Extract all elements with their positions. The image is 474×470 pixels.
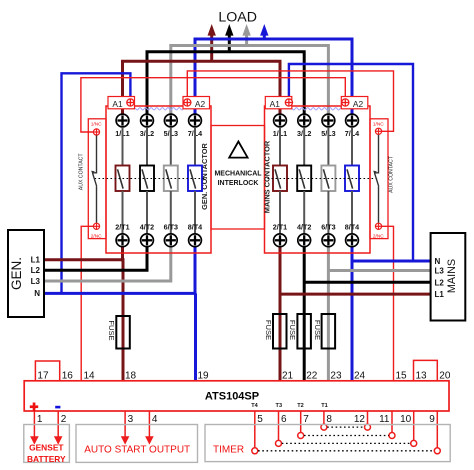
svg-text:20: 20: [439, 371, 451, 382]
MAINS contactor pole 3/L2 terminal: [298, 114, 311, 127]
svg-text:5: 5: [257, 414, 263, 425]
MAINS aux 1/NC terminal: [375, 128, 381, 134]
svg-text:A1: A1: [270, 99, 281, 109]
svg-text:22: 22: [306, 371, 318, 382]
MAINS contactor pole wire upper: [303, 127, 305, 165]
svg-text:17: 17: [37, 371, 49, 382]
wire GEN aux 2/NC to terminal 14 (red): [81, 226, 93, 380]
GEN contactor pole wire lower: [122, 191, 124, 234]
GEN contactor pole wire upper: [170, 127, 172, 165]
wire MAINS L2 riser to 4/T2 and fuse (black): [303, 247, 306, 380]
wire LOAD bus L2 (black): [147, 52, 304, 114]
GEN contactor pole 5/L3 terminal: [164, 114, 177, 127]
GEN contactor pole contact blade: [118, 169, 124, 188]
wire MAINS L2 (black): [304, 281, 430, 284]
svg-text:4: 4: [152, 414, 158, 425]
GEN contactor body: [106, 106, 211, 253]
terminal 8 stub and node: [321, 411, 327, 431]
svg-text:T2: T2: [297, 403, 304, 409]
MAINS contactor pole 8/T4 terminal: [346, 234, 359, 247]
TIMER box: [205, 425, 450, 462]
MAINS contactor pole contact box: [345, 166, 359, 192]
dotted link T2 (7-11): [304, 435, 389, 437]
MAINS contactor pole 5/L3 terminal: [322, 114, 335, 127]
svg-text:L1: L1: [31, 256, 41, 265]
MAINS contactor pole contact blade: [347, 169, 353, 188]
dotted link T4 (5-9): [258, 450, 434, 452]
MAINS contactor pole 4/T2 terminal: [298, 234, 311, 247]
GEN contactor label A2 box: [183, 97, 210, 109]
GEN contactor pole 8/T4 terminal: [189, 234, 202, 247]
LOAD arrow L2: [225, 24, 233, 52]
MAINS contactor pole wire lower: [327, 191, 329, 234]
wire GEN L1 riser to 2/T1 (dark red): [121, 247, 124, 261]
svg-text:MAINS: MAINS: [446, 259, 458, 293]
svg-text:1: 1: [37, 414, 43, 425]
MAINS contactor pole 7/L4 terminal: [346, 114, 359, 127]
GEN contactor pole contact blade: [142, 169, 148, 188]
MAINS contactor A2 terminal: [342, 99, 349, 106]
mechanical interlock triangle: [229, 142, 247, 158]
GENSET BATTERY box: [24, 425, 70, 463]
svg-text:14: 14: [84, 371, 96, 382]
battery minus sign: [55, 406, 60, 409]
GEN contactor A2 terminal: [184, 99, 191, 106]
terminal 5 stub and node: [252, 411, 258, 454]
fuse F1 (GEN L1): [116, 316, 130, 349]
svg-text:16: 16: [62, 371, 74, 382]
fuse F3 (MAINS L2): [297, 314, 311, 349]
terminal 10 stub and node: [411, 411, 417, 447]
MAINS aux contact enclosure: [370, 119, 388, 239]
MAINS aux contact actuator tick: [373, 171, 377, 175]
MAINS aux contact wire upper: [375, 135, 379, 173]
svg-text:8/T4: 8/T4: [188, 223, 202, 232]
svg-text:4/T2: 4/T2: [297, 223, 311, 232]
svg-text:L3: L3: [31, 277, 41, 286]
terminal 12 stub and node: [365, 411, 371, 431]
GEN contactor pole wire lower: [194, 191, 196, 234]
terminal 4 stub with arrow: [145, 411, 154, 445]
wire GEN L1 fuse drop to terminal 18 (dark red): [122, 258, 125, 380]
MAINS contactor pole wire upper: [327, 127, 329, 165]
GEN aux 2/NC terminal: [93, 223, 99, 229]
MAINS contactor pole contact box: [273, 166, 287, 192]
svg-text:10: 10: [400, 414, 412, 425]
wire MAINS L3 riser to 6/T3 and fuse (gray): [327, 247, 330, 380]
wire GEN aux 1/NC feed (red): [81, 78, 345, 132]
MAINS contactor pole contact box: [297, 166, 311, 192]
mechanical interlock box: [211, 126, 265, 230]
svg-text:6/T3: 6/T3: [164, 223, 178, 232]
GEN contactor pole wire upper: [122, 127, 124, 165]
svg-text:15: 15: [396, 371, 408, 382]
MAINS contactor pole wire lower: [351, 191, 353, 234]
MAINS contactor pole wire lower: [279, 191, 281, 234]
GEN contactor pole contact box: [140, 166, 154, 192]
svg-text:N: N: [34, 289, 40, 298]
MAINS contactor pole wire lower: [303, 191, 305, 234]
svg-text:BATTERY: BATTERY: [27, 454, 66, 464]
svg-text:2/NC: 2/NC: [373, 233, 384, 239]
MAINS contactor interlock dotted line: [268, 178, 379, 180]
AUTO START OUTPUT box: [76, 425, 198, 463]
svg-text:L2: L2: [31, 266, 41, 275]
MAINS aux contact wire lower: [378, 186, 380, 223]
wire MAINS aux 2/NC to terminal 15 (red): [382, 226, 394, 380]
svg-text:4/T2: 4/T2: [140, 223, 154, 232]
terminal 9 stub and node: [434, 411, 440, 454]
LOAD arrow L1: [208, 24, 216, 61]
fuse F2 (MAINS L1): [273, 314, 287, 349]
LOAD arrow L3: [242, 24, 250, 46]
svg-text:8: 8: [326, 414, 332, 425]
terminal 3 stub with arrow: [121, 411, 130, 445]
GEN contactor pole 7/L4 terminal: [189, 114, 202, 127]
svg-text:21: 21: [282, 371, 294, 382]
svg-text:2/T1: 2/T1: [115, 223, 129, 232]
svg-text:GEN.: GEN.: [9, 257, 24, 290]
svg-text:MAINS CONTACTOR: MAINS CONTACTOR: [263, 140, 272, 213]
wire GEN L1 (dark red): [44, 258, 123, 261]
LOAD arrow N: [260, 24, 268, 39]
svg-text:L1: L1: [435, 290, 445, 299]
wire LOAD bus N (blue): [195, 39, 352, 114]
dotted link T1 (8-12): [327, 426, 364, 428]
wire MAINS L3 (gray): [328, 269, 430, 272]
GEN aux contact wire upper: [93, 135, 97, 172]
GEN contactor pole 3/L2 terminal: [141, 114, 154, 127]
svg-text:L2: L2: [435, 278, 445, 287]
MAINS contactor pole 1/L1 terminal: [274, 114, 287, 127]
wire GEN L2 (black): [44, 247, 147, 270]
GEN contactor pole contact blade: [166, 169, 172, 188]
MAINS contactor A1 terminal: [285, 99, 292, 106]
wire MAINS L1 (dark red): [280, 293, 431, 296]
bridge terminals 13-20 (red): [414, 360, 438, 380]
bridge terminals 17-16 (red): [35, 361, 59, 380]
MAINS contactor pole wire upper: [351, 127, 353, 165]
GEN source box: [8, 230, 44, 317]
svg-text:11: 11: [379, 414, 390, 425]
GEN contactor pole contact box: [164, 166, 178, 192]
svg-text:1/NC: 1/NC: [373, 122, 384, 128]
svg-text:FUSE: FUSE: [313, 320, 322, 340]
svg-text:T3: T3: [276, 403, 283, 409]
svg-text:24: 24: [354, 371, 366, 382]
wire GEN N riser to 8/T4 and terminal 19 (blue): [194, 247, 198, 380]
wire MAINS coil A1 from MAINS neutral (blue): [289, 64, 413, 261]
dotted link T3 (6-10): [282, 442, 411, 444]
GEN contactor pole contact blade: [190, 169, 196, 188]
svg-text:MECHANICAL: MECHANICAL: [214, 170, 262, 177]
svg-text:3: 3: [128, 414, 134, 425]
svg-text:2/NC: 2/NC: [91, 233, 102, 239]
GEN contactor pole contact box: [188, 166, 202, 192]
svg-text:13: 13: [416, 371, 428, 382]
svg-text:2/T1: 2/T1: [273, 223, 287, 232]
svg-text:L3: L3: [435, 267, 445, 276]
MAINS contactor label A2 box: [341, 97, 368, 109]
svg-text:LOAD: LOAD: [218, 10, 257, 26]
terminal 6 stub and node: [276, 411, 282, 447]
MAINS contactor pole contact blade: [275, 169, 281, 188]
GEN contactor pole wire lower: [146, 191, 148, 234]
MAINS contactor coil squiggle: [290, 108, 343, 110]
terminal 7 stub and node: [298, 411, 304, 439]
svg-text:ATS104SP: ATS104SP: [205, 390, 259, 402]
svg-text:6: 6: [281, 414, 287, 425]
svg-text:A1: A1: [112, 99, 123, 109]
svg-text:9: 9: [429, 414, 435, 425]
wire GEN L3 (gray): [44, 247, 171, 281]
svg-text:AUTO START OUTPUT: AUTO START OUTPUT: [84, 445, 190, 456]
wire MAINS L1 riser to 2/T1 and fuse (dark red): [279, 247, 282, 380]
MAINS contactor body: [265, 106, 371, 253]
svg-text:12: 12: [354, 414, 366, 425]
svg-text:N: N: [435, 257, 441, 266]
terminal 11 stub and node: [389, 411, 395, 439]
svg-text:23: 23: [330, 371, 342, 382]
GEN contactor pole wire lower: [170, 191, 172, 234]
GEN contactor coil squiggle: [133, 108, 186, 110]
battery plus sign: [30, 403, 38, 412]
svg-text:18: 18: [125, 371, 137, 382]
svg-text:AUX CONTACT: AUX CONTACT: [79, 153, 85, 191]
GEN aux 1/NC terminal: [93, 129, 99, 135]
svg-text:FUSE: FUSE: [107, 320, 116, 340]
GEN contactor pole wire upper: [194, 127, 196, 165]
GEN contactor pole 2/T1 terminal: [116, 234, 129, 247]
svg-text:19: 19: [198, 371, 210, 382]
wire MAINS N riser to 8/T4 and terminal 24 (blue): [351, 247, 354, 380]
GEN aux contact wire lower: [96, 186, 98, 223]
svg-text:INTERLOCK: INTERLOCK: [218, 180, 259, 187]
GEN aux contact actuator tick: [91, 171, 95, 175]
svg-text:A2: A2: [195, 99, 206, 109]
GEN aux contact enclosure: [88, 119, 106, 239]
GEN contactor pole 6/T3 terminal: [164, 234, 177, 247]
GEN contactor pole 1/L1 terminal: [116, 114, 129, 127]
svg-text:1/NC: 1/NC: [91, 122, 102, 128]
terminal 1 stub with arrow: [30, 411, 39, 445]
svg-text:7: 7: [303, 414, 309, 425]
svg-text:6/T3: 6/T3: [321, 223, 335, 232]
MAINS contactor pole contact blade: [323, 169, 329, 188]
svg-text:AUX CONTACT: AUX CONTACT: [389, 155, 395, 193]
terminal 2 stub with arrow: [54, 411, 63, 445]
svg-text:FUSE: FUSE: [288, 320, 297, 340]
MAINS contactor pole 2/T1 terminal: [274, 234, 287, 247]
wire GEN N (blue): [44, 292, 195, 295]
wire GEN A2 to MAINS aux 1/NC (red): [187, 71, 393, 131]
MAINS source box: [431, 233, 466, 321]
svg-text:TIMER: TIMER: [213, 445, 244, 456]
wire LOAD bus L1 (dark red): [123, 61, 281, 114]
MAINS contactor pole contact box: [321, 166, 335, 192]
GEN contactor pole wire upper: [146, 127, 148, 165]
svg-text:2: 2: [61, 414, 67, 425]
fuse F4 (MAINS L3): [322, 314, 336, 349]
MAINS aux contact blade: [375, 173, 379, 186]
svg-text:8/T4: 8/T4: [345, 223, 359, 232]
wire LOAD bus L3 (gray): [171, 46, 329, 115]
svg-text:GENSET: GENSET: [29, 443, 64, 453]
svg-text:FUSE: FUSE: [264, 320, 273, 340]
svg-text:T1: T1: [321, 403, 328, 409]
GEN contactor pole contact box: [116, 166, 130, 192]
GEN contactor A1 terminal: [127, 99, 134, 106]
wire GEN coil A1 from GEN neutral (blue): [62, 73, 131, 293]
MAINS contactor label A1 box: [265, 97, 292, 109]
MAINS contactor pole 6/T3 terminal: [322, 234, 335, 247]
svg-text:A2: A2: [353, 99, 364, 109]
ATS104SP terminal strip box: [24, 381, 449, 411]
GEN contactor interlock dotted line: [95, 178, 208, 180]
svg-text:T4: T4: [251, 403, 258, 409]
MAINS aux 2/NC terminal: [375, 223, 381, 229]
GEN contactor label A1 box: [108, 97, 135, 109]
GEN contactor pole 4/T2 terminal: [141, 234, 154, 247]
MAINS contactor pole contact blade: [299, 169, 305, 188]
GEN aux contact blade: [93, 173, 97, 186]
wire MAINS N (blue): [352, 260, 431, 263]
MAINS contactor pole wire upper: [279, 127, 281, 165]
